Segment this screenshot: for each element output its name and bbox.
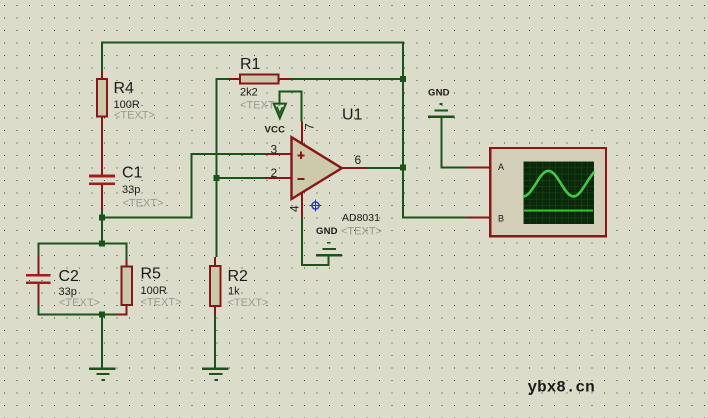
resistor R5 <box>116 259 181 314</box>
wire op-amp pin3 feedback <box>101 154 265 218</box>
svg-text:A: A <box>498 162 504 172</box>
svg-text:R4: R4 <box>114 80 135 97</box>
svg-text:<TEXT>: <TEXT> <box>141 297 182 309</box>
wire R1 right to column <box>290 78 403 80</box>
svg-text:<TEXT>: <TEXT> <box>228 297 269 309</box>
node junction C2/R5 bottom <box>99 311 105 317</box>
wire op-amp pin6 output <box>366 167 404 169</box>
svg-text:VCC: VCC <box>265 125 286 136</box>
ground symbol at op-amp pin4 <box>316 242 342 257</box>
svg-text:U1: U1 <box>342 107 363 124</box>
svg-text:GND: GND <box>428 88 450 99</box>
ground symbol at scope A <box>428 103 454 118</box>
svg-text:2: 2 <box>271 166 278 180</box>
node junction pin2/R2 <box>214 175 220 181</box>
capacitor C2 <box>26 255 100 309</box>
op-amp U1 <box>265 107 380 225</box>
node junction pin6/column <box>400 165 406 171</box>
svg-text:B: B <box>498 214 504 224</box>
reference marker symbol (blue) <box>310 200 322 212</box>
svg-text:R2: R2 <box>228 268 249 285</box>
wire VCC loop to pin7 <box>280 92 302 122</box>
svg-text:<TEXT>: <TEXT> <box>123 198 164 210</box>
wire down to R4 top <box>101 42 103 73</box>
svg-text:3: 3 <box>271 143 278 157</box>
wire R2 to ground G2 <box>214 315 216 368</box>
resistor R4 <box>97 72 155 175</box>
wire GND to scope A <box>441 118 466 167</box>
svg-text:AD8031: AD8031 <box>342 212 380 224</box>
svg-text:C1: C1 <box>122 165 143 182</box>
wire column to scope B <box>403 217 467 219</box>
svg-text:33p: 33p <box>122 184 140 196</box>
svg-text:C2: C2 <box>59 268 80 285</box>
oscilloscope <box>467 148 606 236</box>
wire C2/R5 bottom rail <box>38 305 116 314</box>
svg-text:<TEXT>: <TEXT> <box>114 110 155 122</box>
resistor R1 <box>230 56 291 112</box>
svg-text:100R: 100R <box>141 285 167 297</box>
svg-text:GND: GND <box>316 226 338 237</box>
wire top horizontal from R4 to right column <box>101 42 404 44</box>
node junction C1/pin3 <box>99 215 105 221</box>
node junction C2/R5 top <box>99 240 105 246</box>
wire R1 left to junction column <box>217 79 241 257</box>
wire right column vertical <box>402 42 404 219</box>
wire C1 bottom node down <box>101 210 103 243</box>
svg-text:7: 7 <box>303 123 317 130</box>
svg-text:R1: R1 <box>240 56 261 73</box>
node junction R1 right <box>400 76 406 82</box>
capacitor C1 <box>89 165 163 211</box>
svg-text:ybx8.cn: ybx8.cn <box>528 379 595 397</box>
wire C2/R5 top rail <box>38 243 126 259</box>
svg-text:1k: 1k <box>228 286 240 298</box>
power VCC arrow <box>274 104 286 119</box>
wire op-amp pin2 from junction <box>217 177 266 179</box>
ground symbol G1 below C2/R5 <box>89 368 115 381</box>
svg-text:4: 4 <box>288 205 302 212</box>
svg-text:<TEXT>: <TEXT> <box>59 297 100 309</box>
resistor R2 <box>210 257 268 315</box>
ground symbol G2 below R2 <box>202 368 228 381</box>
svg-text:<TEXT>: <TEXT> <box>341 226 382 238</box>
wire node to ground G1 <box>101 314 103 367</box>
svg-text:2k2: 2k2 <box>240 87 258 99</box>
svg-text:6: 6 <box>355 153 362 167</box>
svg-text:R5: R5 <box>141 266 162 283</box>
wire op-amp pin4 to ground <box>302 217 329 265</box>
